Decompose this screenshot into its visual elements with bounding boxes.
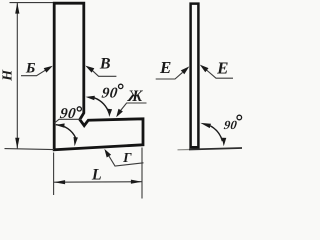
arc right arrow lower	[222, 138, 226, 147]
square body (left figure outline)	[54, 3, 143, 150]
leader E left arrowhead	[181, 66, 190, 74]
leader V	[91, 69, 117, 77]
underline of outer 90deg label	[55, 119, 82, 123]
leader B	[21, 70, 46, 76]
leader G arrowhead	[104, 149, 111, 158]
arc outer arrow lower	[74, 137, 78, 146]
dimension H extension line top	[10, 2, 54, 4]
arc outer arrow upper	[56, 123, 65, 127]
svg-text:L: L	[91, 167, 102, 184]
dimension H arrow top	[15, 3, 19, 14]
svg-text:Н: Н	[1, 69, 16, 82]
dimension L extension line left	[53, 153, 55, 196]
svg-text:Ж: Ж	[127, 88, 144, 105]
svg-text:Е: Е	[159, 58, 171, 77]
svg-text:90: 90	[101, 86, 119, 102]
arc right arrow upper	[200, 123, 211, 128]
leader Zh	[120, 103, 147, 112]
dimension L arrow right	[131, 180, 142, 184]
leader E right arrowhead	[200, 65, 209, 73]
dimension L extension line right	[141, 148, 143, 199]
arc 90deg right figure	[210, 126, 222, 141]
arc inner arrow upper	[86, 96, 95, 100]
leader E right	[207, 70, 234, 78]
arc 90deg inner corner	[94, 98, 109, 114]
svg-text:90: 90	[223, 118, 238, 132]
svg-text:В: В	[99, 56, 111, 73]
straightedge blade (right figure)	[191, 4, 199, 148]
leader G	[109, 156, 144, 166]
svg-text:Б: Б	[25, 60, 36, 76]
dimension H line	[16, 3, 18, 149]
dimension H arrow bottom	[15, 138, 19, 149]
leader Zh arrowhead	[116, 109, 123, 118]
surface base line	[178, 149, 191, 151]
dimension L arrow left	[54, 180, 65, 184]
dimension H extension line bottom	[5, 149, 55, 150]
leader E left	[156, 72, 183, 79]
svg-text:Е: Е	[216, 59, 228, 78]
arc inner arrow lower	[108, 109, 112, 117]
arc 90deg outer corner	[56, 125, 76, 139]
dimension L line	[54, 181, 142, 184]
leader B arrowhead	[44, 66, 53, 73]
leader V arrowhead	[85, 66, 94, 73]
